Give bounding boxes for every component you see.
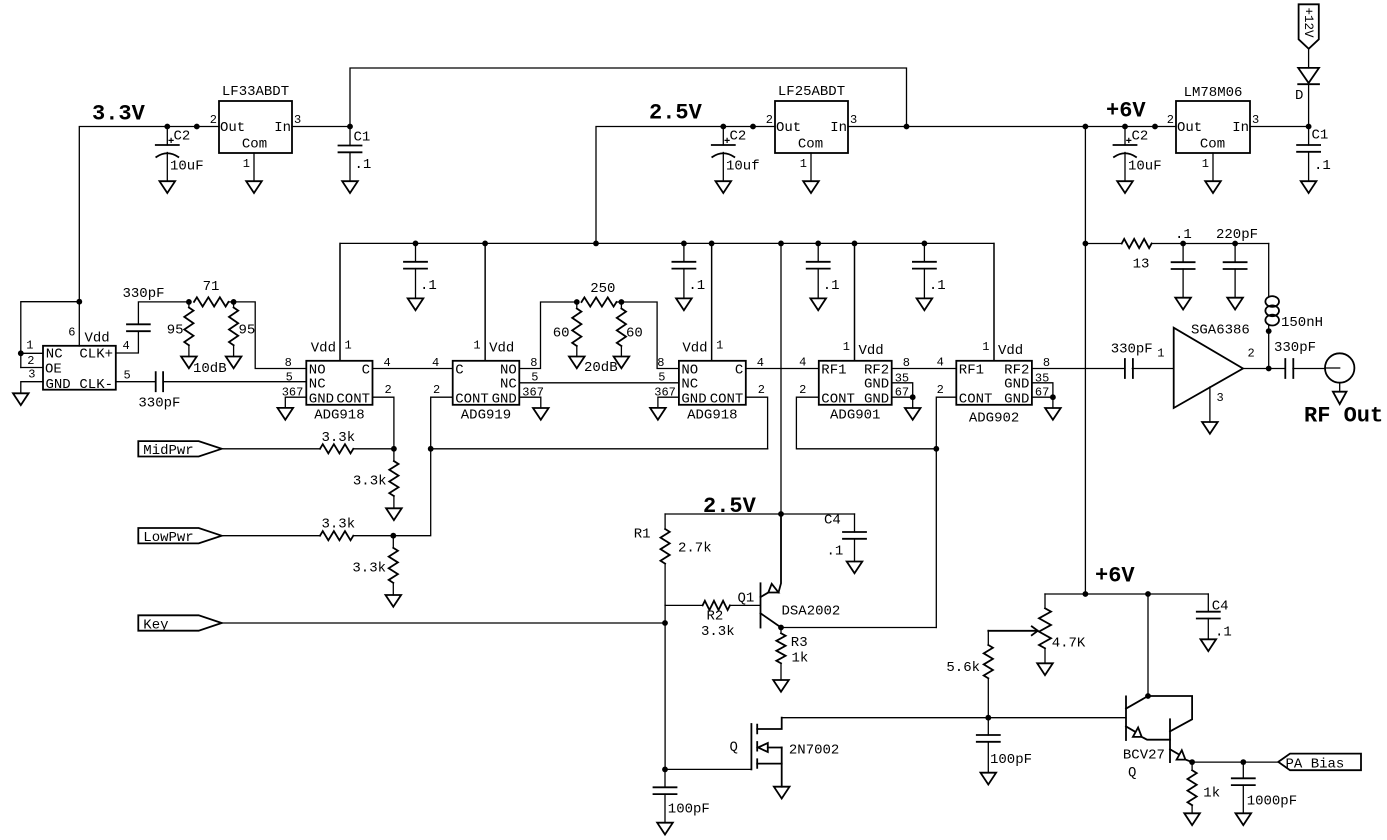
svg-text:.1: .1 <box>929 278 946 294</box>
svg-text:CLK-: CLK- <box>79 377 113 393</box>
ground ADG902 <box>1045 408 1061 420</box>
wire BCV27 collector feed <box>1147 594 1149 696</box>
ground osc pin 3 <box>13 393 29 405</box>
transistor Q 2N7002 (NMOS) <box>750 724 752 769</box>
ground MidPwr pulldown <box>386 508 402 520</box>
resistor 250 <box>582 297 617 306</box>
wire LowPwr <box>222 535 320 537</box>
wire drain line to BCV27 base <box>782 717 1126 719</box>
capacitor 100pF (gate) <box>664 769 666 787</box>
svg-text:3.3k: 3.3k <box>701 624 735 640</box>
wire 10dB out to ADG918 NO <box>234 302 307 369</box>
svg-text:100pF: 100pF <box>990 752 1032 768</box>
wire ADG918#2 C to ADG901 RF1 <box>746 368 819 370</box>
svg-text:C2: C2 <box>174 129 191 145</box>
svg-text:1: 1 <box>843 340 850 354</box>
svg-text:1: 1 <box>243 157 250 171</box>
capacitor 330pF (amp input) <box>1032 368 1125 370</box>
svg-text:In: In <box>830 120 847 136</box>
svg-text:1: 1 <box>716 339 723 353</box>
ground C2 10uf (2.5V) <box>716 181 732 193</box>
svg-text:5: 5 <box>124 368 131 382</box>
wire Vdd ADG919 <box>484 243 486 360</box>
svg-text:MidPwr: MidPwr <box>143 443 193 459</box>
resistor 3.3k MidPwr pulldown <box>393 449 395 461</box>
capacitor 100pF (drain) <box>987 718 989 735</box>
ground RF Out connector <box>1333 392 1347 404</box>
ground bypass cap #3 <box>810 298 826 310</box>
svg-text:220pF: 220pF <box>1216 227 1258 243</box>
output flag PA Bias <box>1278 754 1361 771</box>
svg-text:1: 1 <box>1202 157 1209 171</box>
wire diode to +12V flag <box>1308 49 1310 68</box>
svg-text:Com: Com <box>1200 137 1225 153</box>
svg-text:ADG902: ADG902 <box>969 411 1019 427</box>
ground 100pF (drain) <box>981 773 997 785</box>
svg-text:Com: Com <box>242 137 267 153</box>
svg-text:C: C <box>362 362 370 378</box>
capacitor C4 .1 (2.5V) <box>854 514 856 532</box>
svg-text:2: 2 <box>799 383 806 397</box>
ground for C2 10uF (3.3V) <box>160 181 176 193</box>
svg-text:3.3k: 3.3k <box>353 474 387 490</box>
svg-text:250: 250 <box>590 281 615 297</box>
junction dot +12V node <box>1306 124 1312 130</box>
svg-text:95: 95 <box>239 323 256 339</box>
wire ADG901 CONT to key node <box>796 397 936 449</box>
analog switch U ADG901 box <box>819 361 892 405</box>
capacitor C1 .1 (LF33 input) <box>349 127 351 146</box>
svg-text:60: 60 <box>626 326 643 342</box>
resistor 13 <box>1085 243 1121 245</box>
wire LF33 In to C1 <box>292 126 350 128</box>
svg-text:3: 3 <box>294 113 301 127</box>
svg-text:2: 2 <box>758 383 765 397</box>
resistor R3 1k <box>780 628 782 634</box>
wire Key column <box>664 605 666 769</box>
svg-text:330pF: 330pF <box>123 286 165 302</box>
junction dot gate node <box>662 767 668 773</box>
body diode arrow 2N7002 <box>758 743 768 752</box>
input flag MidPwr <box>138 441 221 456</box>
ground C2 10uF (+6V) <box>1117 181 1133 193</box>
ground C4 (2.5V) <box>847 562 863 574</box>
junction dot +6V at bias row <box>1083 241 1089 247</box>
svg-text:R3: R3 <box>791 635 808 651</box>
svg-text:Vdd: Vdd <box>998 343 1023 359</box>
svg-text:10dB: 10dB <box>193 361 227 377</box>
svg-text:C1: C1 <box>1312 128 1329 144</box>
diode D <box>1308 84 1310 126</box>
capacitor 330pF (amp output) <box>1285 359 1293 378</box>
svg-text:3.3k: 3.3k <box>321 430 355 446</box>
ground LF33 pin 1 <box>246 181 262 193</box>
svg-text:1k: 1k <box>1203 786 1220 802</box>
svg-text:CLK+: CLK+ <box>79 347 113 363</box>
resistor 71 <box>194 297 229 306</box>
junction dot amp output <box>1266 366 1272 372</box>
resistor R2 3.3k <box>665 604 703 606</box>
svg-text:5.6k: 5.6k <box>946 660 980 676</box>
svg-text:C2: C2 <box>1132 129 1149 145</box>
svg-text:.1: .1 <box>1314 158 1331 174</box>
svg-text:60: 60 <box>553 326 570 342</box>
svg-text:8: 8 <box>285 356 292 370</box>
junction dots attenuator 10dB <box>186 299 192 305</box>
svg-text:4: 4 <box>123 339 130 353</box>
wire LowPwr to ADG919/ADG918#2 CONT <box>393 449 767 536</box>
wire Vdd pin 1 ADG918 <box>339 243 341 360</box>
wire ADG918 C to ADG919 C <box>373 368 453 370</box>
ground ADG918 <box>278 408 294 420</box>
transistor Q1 DSA2002 (PNP) <box>760 583 762 627</box>
oscillator U (clock) box <box>43 346 116 390</box>
wire ADG901 RF2 to ADG902 RF1 <box>892 368 957 370</box>
ground SGA pin 3 <box>1202 422 1218 434</box>
regulator U LM78M06 <box>1176 101 1250 153</box>
ground LowPwr pulldown <box>386 595 402 607</box>
inductor 150nH <box>1268 244 1270 297</box>
svg-text:CONT: CONT <box>821 391 855 407</box>
svg-text:3: 3 <box>28 368 35 382</box>
svg-text:5: 5 <box>286 370 293 384</box>
analog switch U ADG918 box <box>306 361 372 405</box>
ground C1 (LF33 input) <box>342 181 358 193</box>
analog switch U ADG919 box <box>453 361 520 405</box>
wire osc GND pin 3 <box>21 382 43 394</box>
resistor 3.3k LowPwr pulldown <box>392 536 394 548</box>
ground ADG901 <box>905 408 921 420</box>
wire Vdd ADG901 <box>854 243 856 360</box>
resistor 1k (PA bias) <box>1191 762 1193 770</box>
svg-text:GND: GND <box>46 377 71 393</box>
junction dots +6V rail <box>904 124 910 130</box>
wire gate line <box>665 768 751 770</box>
svg-text:ADG918: ADG918 <box>687 407 737 423</box>
svg-text:3: 3 <box>1217 391 1224 405</box>
ground bypass cap #1 <box>408 298 424 310</box>
svg-text:OE: OE <box>45 362 62 378</box>
power flag +12V <box>1299 4 1319 49</box>
svg-text:R1: R1 <box>634 527 651 543</box>
svg-text:SGA6386: SGA6386 <box>1191 323 1250 339</box>
capacitor 1000pF <box>1242 762 1244 778</box>
svg-text:LF25ABDT: LF25ABDT <box>778 84 845 100</box>
capacitor .1 bypass #1 on bus <box>415 243 417 261</box>
junction dot MidPwr node <box>391 446 397 452</box>
svg-text:Vdd: Vdd <box>85 331 110 347</box>
svg-text:3: 3 <box>850 113 857 127</box>
svg-text:95: 95 <box>167 323 184 339</box>
ground 60 left <box>569 357 585 369</box>
svg-text:1000pF: 1000pF <box>1247 794 1297 810</box>
wire +6V feed to LF33 input (top link) <box>350 68 907 127</box>
wire +6V bias rail <box>1045 593 1208 595</box>
ground 2N7002 source <box>774 787 790 799</box>
svg-text:In: In <box>1232 120 1249 136</box>
ground R3 <box>773 680 789 692</box>
ground C1 (+12V input) <box>1301 181 1317 193</box>
svg-text:C4: C4 <box>824 513 841 529</box>
svg-text:ADG901: ADG901 <box>830 407 880 423</box>
wire MidPwr <box>222 448 320 450</box>
wire ADG918#2 CONT down to LowPwr net <box>746 397 768 449</box>
junction dots 20dB pad <box>574 299 580 305</box>
svg-text:Out: Out <box>1177 120 1202 136</box>
wire LM78 In <box>1250 126 1309 128</box>
svg-text:2: 2 <box>27 354 34 368</box>
wire osc feedback loop NC/OE <box>21 302 80 368</box>
svg-text:NC: NC <box>500 377 517 393</box>
analog switch U ADG918 box <box>679 361 746 405</box>
svg-text:2: 2 <box>766 113 773 127</box>
svg-text:150nH: 150nH <box>1281 315 1323 331</box>
svg-text:.1: .1 <box>420 278 437 294</box>
svg-text:DSA2002: DSA2002 <box>782 604 841 620</box>
junction dot Key node <box>662 620 668 626</box>
wire Vdd pin 1 ADG919 <box>484 243 486 360</box>
wire SGA pin 3 to ground <box>1209 387 1211 422</box>
svg-text:330pF: 330pF <box>1274 340 1316 356</box>
svg-text:330pF: 330pF <box>1111 342 1153 358</box>
svg-text:Q1: Q1 <box>738 591 755 607</box>
svg-text:R2: R2 <box>707 609 724 625</box>
wire 2.5V drop to Q1 emitter <box>780 243 782 514</box>
ground 100pF (gate) <box>657 823 673 835</box>
svg-text:2: 2 <box>1167 113 1174 127</box>
svg-text:LF33ABDT: LF33ABDT <box>222 84 289 100</box>
svg-text:D: D <box>1295 88 1303 104</box>
capacitor 220pF <box>1234 244 1236 263</box>
svg-text:3: 3 <box>1252 113 1259 127</box>
wire Vdd pin 1 ADG902 <box>993 243 995 360</box>
svg-text:1: 1 <box>982 340 989 354</box>
junction dot LowPwr node <box>390 533 396 539</box>
wire LF25 Com pin 1 <box>810 153 812 181</box>
svg-text:71: 71 <box>203 279 220 295</box>
capacitor .1 bypass #3 on bus <box>817 243 819 261</box>
wire ADG902 CONT down to Q1 collector <box>936 397 956 627</box>
svg-text:ADG918: ADG918 <box>314 407 364 423</box>
svg-text:Vdd: Vdd <box>682 341 707 357</box>
capacitor 330pF (CLK- coupling) <box>116 381 156 383</box>
svg-text:LM78M06: LM78M06 <box>1184 85 1243 101</box>
svg-text:Key: Key <box>143 617 168 633</box>
svg-text:BCV27: BCV27 <box>1123 748 1165 764</box>
svg-text:Vdd: Vdd <box>859 343 884 359</box>
svg-text:Q: Q <box>730 740 738 756</box>
svg-text:CONT: CONT <box>959 391 993 407</box>
resistor R1 2.7k <box>664 514 666 529</box>
svg-text:13: 13 <box>1133 257 1150 273</box>
capacitor 330pF (CLK+ coupling) <box>116 331 139 353</box>
wire ADG919 NO to 20dB pad <box>519 302 577 369</box>
capacitor C4 .1 (+6V bias) <box>1207 594 1209 612</box>
svg-text:2: 2 <box>433 383 440 397</box>
amplifier U SGA6386 <box>1174 328 1243 408</box>
potentiometer 4.7K <box>1044 594 1046 608</box>
svg-text:LowPwr: LowPwr <box>143 530 193 546</box>
junction dots bias row <box>1180 241 1186 247</box>
wire 2.5V output rail <box>596 127 775 244</box>
ground bypass cap #4 <box>917 298 933 310</box>
svg-text:+12V: +12V <box>1301 8 1315 39</box>
emitter arrow BCV27 second <box>1177 750 1186 759</box>
svg-text:1k: 1k <box>792 651 809 667</box>
junction dot C1 (3.3V side) <box>347 124 353 130</box>
svg-text:.1: .1 <box>1215 625 1232 641</box>
svg-text:CONT: CONT <box>455 391 489 407</box>
svg-text:4: 4 <box>799 356 806 370</box>
svg-text:1: 1 <box>26 338 33 352</box>
svg-text:NC: NC <box>681 377 698 393</box>
svg-text:GND: GND <box>1004 391 1029 407</box>
svg-text:CONT: CONT <box>336 391 370 407</box>
ground LM78 pin 1 <box>1205 181 1221 193</box>
ground C4 (+6V bias) <box>1201 639 1217 651</box>
wire GND pins ADG901 <box>892 383 913 397</box>
junction dot GND ADG901 <box>910 394 916 400</box>
svg-text:Out: Out <box>776 120 801 136</box>
junction dot below inductor <box>1266 328 1272 334</box>
svg-text:RF1: RF1 <box>959 362 984 378</box>
ground LF25 pin 1 <box>803 181 819 193</box>
wire +6V vertical drop <box>1084 127 1086 595</box>
svg-text:Com: Com <box>798 137 823 153</box>
junction dot GND ADG902 <box>1050 394 1056 400</box>
capacitor .1 (SGA bias) <box>1182 244 1184 263</box>
svg-text:RF Out: RF Out <box>1304 404 1383 429</box>
svg-text:6: 6 <box>68 326 75 340</box>
svg-text:Vdd: Vdd <box>489 341 514 357</box>
svg-text:Q: Q <box>1128 765 1136 781</box>
svg-text:4.7K: 4.7K <box>1052 636 1086 652</box>
wire GND pin ADG918 <box>658 397 679 408</box>
ground 4.7K <box>1037 663 1053 675</box>
junction dot 1000pF <box>1240 759 1246 765</box>
svg-text:2: 2 <box>385 383 392 397</box>
resistor 95 right <box>233 302 235 308</box>
svg-text:ADG919: ADG919 <box>461 407 511 423</box>
svg-text:330pF: 330pF <box>138 396 180 412</box>
connector RF Out <box>1325 353 1354 382</box>
regulator U LF33ABDT <box>219 101 292 153</box>
svg-text:NC: NC <box>46 347 63 363</box>
svg-text:2N7002: 2N7002 <box>789 742 839 758</box>
input flag Key <box>138 615 221 630</box>
junction dot drain node <box>985 715 991 721</box>
svg-text:2: 2 <box>937 383 944 397</box>
svg-text:GND: GND <box>1004 377 1029 393</box>
svg-text:C4: C4 <box>1212 599 1229 615</box>
svg-text:10uF: 10uF <box>1128 159 1162 175</box>
svg-text:3.3k: 3.3k <box>352 561 386 577</box>
ground 1000pF <box>1236 813 1252 825</box>
capacitor C2 10uf (2.5V) <box>722 127 724 146</box>
wire +6V rail <box>848 126 1176 128</box>
wire Vdd pin 1 ADG901 <box>854 243 856 360</box>
resistor 60 right <box>620 302 622 309</box>
wire Vdd pin 1 ADG918 <box>711 243 713 360</box>
analog switch U ADG902 box <box>956 361 1032 405</box>
svg-text:In: In <box>274 120 291 136</box>
emitter arrow BCV27 first <box>1133 728 1142 737</box>
wire ADG919 CONT down <box>431 397 453 449</box>
svg-text:+6V: +6V <box>1106 99 1146 124</box>
svg-text:GND: GND <box>864 377 889 393</box>
svg-text:2.5V: 2.5V <box>649 101 703 126</box>
svg-text:2: 2 <box>210 113 217 127</box>
svg-text:Out: Out <box>220 120 245 136</box>
wiper arrow 4.7K <box>988 630 1037 632</box>
svg-text:3.3k: 3.3k <box>321 517 355 533</box>
svg-text:C: C <box>735 362 743 378</box>
svg-text:10uF: 10uF <box>170 159 204 175</box>
svg-text:RF1: RF1 <box>821 362 846 378</box>
input flag LowPwr <box>138 528 221 543</box>
wire Q1 collector to CONT riser <box>781 627 936 629</box>
wire LM78 Com pin 1 <box>1212 153 1214 181</box>
wire PA bias output <box>1192 761 1278 763</box>
svg-text:1: 1 <box>800 157 807 171</box>
svg-text:CONT: CONT <box>710 391 744 407</box>
svg-text:4: 4 <box>937 356 944 370</box>
wire ADG918 CONT down to MidPwr <box>373 397 394 449</box>
svg-text:NC: NC <box>309 377 326 393</box>
wire 3.3V rail <box>79 127 219 347</box>
svg-text:C1: C1 <box>354 130 371 146</box>
resistor 95 left <box>188 302 190 308</box>
svg-text:2.5V: 2.5V <box>703 494 757 519</box>
resistor 3.3k MidPwr series <box>320 444 353 453</box>
wire LF33 Com pin 1 <box>253 153 255 181</box>
wire Vdd ADG918 second <box>711 243 713 360</box>
svg-text:C: C <box>455 362 463 378</box>
ground ADG918 <box>650 408 666 420</box>
junction dots 3.3V rail <box>164 124 170 130</box>
ground 95 left <box>181 357 197 369</box>
junction dot Q1 emitter supply <box>778 511 784 517</box>
svg-text:Vdd: Vdd <box>311 341 336 357</box>
junction dots 2.5V rail <box>720 124 726 130</box>
capacitor C2 10uF (+6V) <box>1124 127 1126 146</box>
svg-text:1: 1 <box>1157 347 1164 361</box>
junction dot osc Vdd <box>76 299 82 305</box>
svg-text:PA Bias: PA Bias <box>1286 757 1345 773</box>
transistor Q BCV27 (darlington) <box>1125 696 1127 740</box>
svg-text:C2: C2 <box>730 129 747 145</box>
svg-text:100pF: 100pF <box>668 802 710 818</box>
capacitor C2 10uF (3.3V) <box>166 127 168 146</box>
svg-text:3.3V: 3.3V <box>92 102 146 127</box>
resistor 5.6k <box>987 631 989 646</box>
capacitor .1 bypass #4 on bus <box>923 243 925 261</box>
svg-text:GND: GND <box>492 391 517 407</box>
svg-text:10uf: 10uf <box>726 159 760 175</box>
svg-text:GND: GND <box>681 391 706 407</box>
ground bypass cap #2 <box>676 298 692 310</box>
ground ADG919 <box>533 408 549 420</box>
capacitor C1 .1 (+12V input) <box>1308 127 1310 146</box>
svg-text:.1: .1 <box>688 278 705 294</box>
wire amp output <box>1243 368 1285 370</box>
wire Key <box>222 622 665 624</box>
ground 95 right <box>226 357 242 369</box>
resistor 60 left <box>576 302 578 309</box>
wire 2.5V local <box>665 513 854 515</box>
svg-text:.1: .1 <box>823 278 840 294</box>
svg-text:.1: .1 <box>355 157 372 173</box>
